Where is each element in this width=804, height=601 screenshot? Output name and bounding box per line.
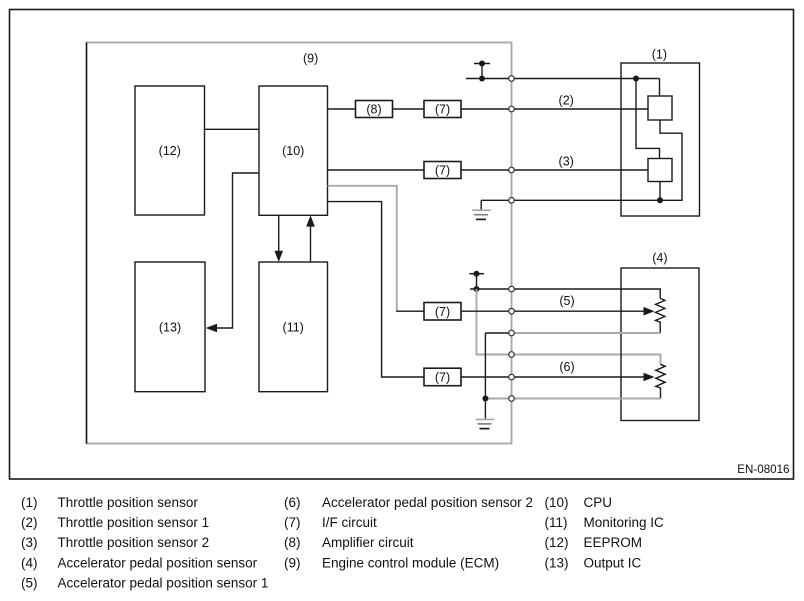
wire dot down to element 2: [636, 79, 660, 159]
svg-text:CPU: CPU: [584, 495, 613, 510]
svg-text:(4): (4): [652, 251, 667, 265]
svg-text:(3): (3): [559, 155, 574, 169]
gray wire pot2 bottom: [485, 398, 660, 400]
svg-text:Throttle position sensor 1: Throttle position sensor 1: [58, 515, 210, 530]
Monitoring IC block (11): [259, 262, 328, 392]
svg-text:(13): (13): [545, 555, 569, 570]
ground symbol top: [472, 209, 491, 211]
wire (2): (7) to throttle sensor element 1: [461, 108, 648, 110]
svg-text:I/F circuit: I/F circuit: [322, 515, 377, 530]
svg-text:Monitoring IC: Monitoring IC: [584, 515, 665, 530]
throttle position sensor box (1): [621, 63, 700, 216]
outer frame: [10, 10, 794, 480]
svg-text:(8): (8): [284, 535, 301, 550]
I/F circuit box (7) row9: [424, 368, 461, 386]
EEPROM block (12): [135, 86, 205, 215]
svg-text:(7): (7): [435, 371, 450, 385]
gray power branch to element 2: [477, 289, 661, 364]
svg-text:(6): (6): [559, 360, 574, 374]
wire (12)-(10): [205, 128, 260, 130]
svg-text:(11): (11): [283, 320, 304, 334]
wire power to throttle sensor: [466, 78, 660, 80]
wire element1 bottom jog: [660, 120, 682, 200]
svg-text:(7): (7): [435, 164, 450, 178]
svg-text:Accelerator pedal position sen: Accelerator pedal position sensor 1: [58, 576, 269, 591]
svg-text:(10): (10): [282, 144, 304, 158]
svg-text:(3): (3): [21, 535, 38, 550]
I/F circuit box (7) row3: [424, 162, 461, 179]
black wire (10) to I/F (7) row9: [328, 202, 425, 377]
svg-text:EN-08016: EN-08016: [737, 463, 789, 476]
sensor element square 1: [648, 96, 672, 120]
potentiometer 1 zigzag: [656, 298, 665, 333]
wire (6): I/F to wiper 2: [461, 376, 646, 378]
wire (5): I/F to wiper 1: [461, 310, 646, 312]
svg-text:(4): (4): [21, 555, 38, 570]
arrowhead into (13): [206, 324, 217, 333]
amplifier circuit box (8): [356, 101, 393, 118]
wire (8) to I/F (7) top: [393, 108, 425, 110]
ECM left edge dark: [86, 43, 88, 444]
ECM connector pin circles: [509, 76, 515, 82]
svg-text:(6): (6): [284, 495, 301, 510]
svg-text:Accelerator pedal position sen: Accelerator pedal position sensor: [58, 555, 258, 570]
wire power to pedal sensor element 1: [470, 289, 660, 298]
node: junction dot power: [633, 76, 639, 82]
ground drop bottom: [484, 333, 486, 419]
svg-text:(8): (8): [366, 102, 381, 116]
svg-text:(2): (2): [21, 515, 38, 530]
I/F circuit box (7) row2: [424, 101, 461, 118]
potentiometer 2 zigzag: [656, 364, 665, 398]
I/F circuit box (7) row6: [424, 303, 461, 321]
wire (3): (7) to throttle sensor element 2: [461, 169, 648, 171]
wire (10) to I/F (7) row3: [328, 169, 425, 171]
svg-text:(7): (7): [435, 305, 450, 319]
power symbol bottom: [469, 273, 484, 275]
ground symbol bottom: [476, 418, 495, 420]
gray wire (10) to I/F (7) row6: [328, 186, 397, 311]
ECM module box (9): [87, 43, 512, 444]
svg-text:(7): (7): [284, 515, 301, 530]
wire (10) to amplifier (8): [328, 108, 356, 110]
svg-text:(9): (9): [284, 555, 301, 570]
svg-text:Output IC: Output IC: [584, 555, 642, 570]
black wire pin to ground drop: [485, 332, 512, 334]
svg-text:Amplifier circuit: Amplifier circuit: [322, 535, 414, 550]
node: junction dot ground bottom: [482, 396, 488, 402]
CPU block (10): [259, 86, 328, 215]
arrow (10) down to (11): [278, 215, 280, 252]
legend: [21, 495, 664, 591]
power symbol top: [474, 63, 490, 65]
svg-text:(11): (11): [545, 515, 568, 530]
svg-text:(13): (13): [159, 320, 181, 334]
accelerator pedal position sensor box (4): [621, 268, 699, 421]
svg-text:(5): (5): [21, 576, 38, 591]
svg-text:(1): (1): [652, 48, 667, 62]
gray wire pot1 bottom to pin: [512, 332, 661, 334]
node: junction dot ground: [657, 197, 663, 203]
svg-text:(10): (10): [545, 495, 569, 510]
wire into element 1 top: [659, 79, 661, 97]
svg-text:(9): (9): [303, 52, 318, 66]
svg-text:(5): (5): [559, 294, 574, 308]
svg-text:Accelerator pedal position sen: Accelerator pedal position sensor 2: [322, 495, 533, 510]
sensor element square 2: [648, 159, 672, 182]
svg-text:Engine control module (ECM): Engine control module (ECM): [322, 555, 499, 570]
ground wire top: [481, 199, 660, 201]
svg-text:EEPROM: EEPROM: [584, 535, 643, 550]
Output IC block (13): [135, 262, 205, 392]
svg-text:(1): (1): [21, 495, 38, 510]
wire (10) to (13) with arrow: [208, 173, 259, 328]
svg-text:(7): (7): [435, 102, 450, 116]
wire element2 bottom: [659, 182, 661, 201]
svg-text:Throttle position sensor: Throttle position sensor: [58, 495, 199, 510]
svg-text:(2): (2): [559, 94, 574, 108]
arrow (11) up to (10): [310, 225, 312, 262]
svg-text:(12): (12): [545, 535, 569, 550]
svg-text:Throttle position sensor 2: Throttle position sensor 2: [58, 535, 210, 550]
svg-text:(12): (12): [159, 144, 181, 158]
